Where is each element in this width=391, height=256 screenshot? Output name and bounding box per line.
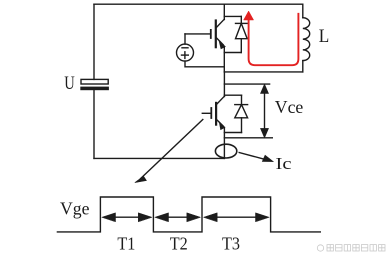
svg-text:T1: T1 xyxy=(117,233,135,253)
inductor L xyxy=(303,18,310,61)
label U xyxy=(64,73,75,94)
label Ic xyxy=(276,154,293,173)
current probe ellipse xyxy=(215,144,236,158)
wire left bus upper xyxy=(93,4,95,79)
label T3 xyxy=(222,233,240,253)
wire right branch top xyxy=(302,4,304,18)
svg-text:Ic: Ic xyxy=(276,154,293,173)
wire right branch bottom xyxy=(302,61,304,72)
diode D2 lower freewheel xyxy=(224,95,247,132)
capacitor U xyxy=(81,79,108,89)
red commutation loop xyxy=(244,11,299,65)
label T1 xyxy=(117,233,135,253)
transistor Q1 upper IGBT xyxy=(185,4,225,72)
svg-text:Vce: Vce xyxy=(275,97,304,117)
arrow T3 span xyxy=(204,213,269,222)
label L xyxy=(319,26,330,47)
arrow T2 span xyxy=(155,213,200,222)
wire bottom xyxy=(94,157,224,159)
wire left bus lower xyxy=(93,90,95,159)
svg-text:T3: T3 xyxy=(222,233,240,253)
arrow T1 span xyxy=(102,213,152,222)
watermark xyxy=(317,245,385,252)
diode D1 upper freewheel xyxy=(224,16,247,52)
arrow Ic xyxy=(239,153,273,162)
arrow gate signal pointer xyxy=(135,120,203,183)
svg-text:U: U xyxy=(64,73,75,94)
wire midpoint xyxy=(224,71,302,73)
label Vge xyxy=(60,199,90,219)
wire top bus xyxy=(94,3,303,5)
gate driver source V1 xyxy=(177,34,225,67)
svg-text:L: L xyxy=(319,26,330,47)
transistor Q2 lower IGBT xyxy=(202,72,224,158)
svg-text:Vge: Vge xyxy=(60,199,90,219)
label Vce xyxy=(275,97,304,117)
Vce measurement arrow xyxy=(224,84,272,138)
svg-text:T2: T2 xyxy=(170,233,188,253)
label T2 xyxy=(170,233,188,253)
waveform Vge xyxy=(57,197,320,232)
